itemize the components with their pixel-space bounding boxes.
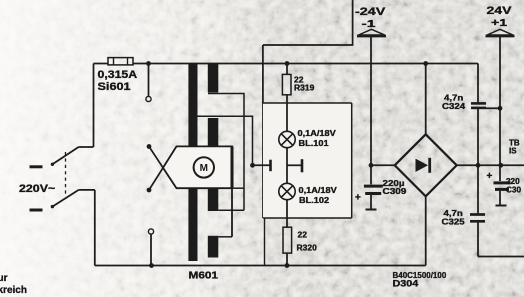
svg-text:Si601: Si601 — [98, 80, 131, 93]
svg-text:24V: 24V — [487, 4, 513, 16]
svg-text:+: + — [487, 171, 493, 182]
motor M601 crossed leads — [147, 144, 177, 192]
wire line B to plug contact — [253, 164, 271, 166]
node -24V DC junction — [369, 163, 374, 168]
wire tap2 (from left bar) to line B — [198, 116, 253, 165]
wire +24V stem — [499, 37, 501, 181]
svg-text:IS: IS — [509, 147, 517, 156]
wire AC rail corner down to C324 x=478 — [477, 64, 479, 104]
wire rail to R319 — [286, 64, 288, 75]
wire lamp box to bottom rail — [264, 218, 266, 266]
wire from top sheet down to node, x=352.6 — [263, 0, 353, 45]
motor M601 body (pentagon) — [163, 146, 232, 188]
switch S1 pole 2 — [30, 190, 95, 210]
rail symbol 24V — [486, 29, 515, 36]
wire C325 bottom to right edge — [478, 256, 524, 258]
resistor R319 — [282, 74, 291, 94]
switch mechanical link (dashed) — [65, 152, 67, 196]
plug contact bar right — [301, 159, 304, 172]
svg-text:R320: R320 — [297, 243, 318, 253]
svg-text:0,1A/18V: 0,1A/18V — [299, 185, 337, 194]
svg-text:+1: +1 — [491, 17, 507, 29]
svg-text:+: + — [355, 193, 361, 204]
wire bridge bottom to rail — [425, 196, 427, 265]
rail symbol -24V — [357, 29, 386, 36]
winding bar right section 2 — [208, 118, 219, 146]
svg-text:C325: C325 — [442, 217, 465, 226]
node R320 bottom junction — [285, 263, 290, 268]
svg-text:D304: D304 — [393, 279, 419, 289]
resistor R320 — [283, 227, 292, 253]
wire DC plus from bridge to right edge — [457, 164, 524, 166]
plug contact bar left — [269, 160, 272, 172]
svg-text:0,1A/18V: 0,1A/18V — [298, 128, 336, 137]
wire motor box right edge extension down — [231, 188, 233, 237]
switch S1 pole 1 — [30, 147, 94, 167]
svg-text:C30: C30 — [506, 185, 521, 194]
winding bar right section 1 — [208, 64, 219, 93]
node +24V DC junction — [498, 163, 503, 168]
svg-text:0,315A: 0,315A — [98, 68, 138, 80]
wire winding section3 bottom to line A — [218, 209, 244, 211]
node C325 top junction — [476, 163, 481, 168]
wire tap1 to line A — [208, 94, 244, 211]
terminal stub from fuse junction — [146, 64, 151, 102]
wire C324 down to DC plus wire — [477, 108, 479, 165]
wire switch pole2 down to bottom rail x=94.8 — [94, 190, 96, 266]
wire R320 to bottom rail — [286, 253, 288, 265]
wire switch pole1 vertical to fuse x=93.5 — [93, 64, 95, 148]
node R319 top junction — [285, 61, 290, 66]
svg-text:BL.102: BL.102 — [299, 195, 329, 205]
svg-text:BL.101: BL.101 — [299, 138, 329, 148]
node bridge AC top junction — [423, 61, 428, 66]
wire lamp-box left edge x=262.9 — [262, 45, 264, 218]
svg-text:-24V: -24V — [355, 5, 386, 17]
node fuse tap junction — [146, 61, 151, 66]
svg-text:kreich: kreich — [0, 285, 27, 296]
wire lamp junction to plug contact right — [287, 164, 302, 166]
svg-text:22: 22 — [298, 230, 308, 240]
lamp BL.101 — [279, 131, 295, 147]
svg-text:ur: ur — [0, 273, 8, 284]
node line B junction — [250, 163, 255, 168]
wire winding section4 step — [218, 236, 232, 238]
motor M601 body right edge thick — [231, 146, 234, 188]
winding bar left (primary) lower — [188, 188, 197, 261]
fuse Si601 0,315A — [108, 58, 133, 65]
winding bar left (primary) upper — [188, 64, 197, 147]
wire DC minus to bridge — [371, 164, 395, 166]
svg-text:M601: M601 — [189, 270, 218, 281]
winding bar right section 4 — [208, 236, 219, 258]
wire R319 to BL.101 — [286, 95, 288, 132]
node C324 +24V junction — [498, 106, 503, 111]
wire box bottom extension to line A — [232, 187, 244, 189]
wire -24V stem down to C309 — [370, 37, 372, 184]
bridge rectifier D304 — [395, 134, 457, 196]
capacitor C325 — [470, 165, 485, 256]
wire 220V AC rail y=63.5 — [94, 63, 109, 65]
svg-text:C324: C324 — [442, 101, 465, 110]
svg-text:C309: C309 — [383, 187, 407, 196]
terminal stub to bottom rail — [148, 229, 154, 268]
lamp BL.102 — [279, 183, 295, 199]
wire BL.101 to BL.102 — [286, 148, 288, 184]
svg-text:R319: R319 — [294, 83, 315, 93]
svg-text:220V~: 220V~ — [19, 183, 55, 195]
winding bar right section 3 — [208, 188, 219, 211]
capacitor C324 — [471, 103, 486, 108]
motor M601 rotor symbol — [194, 157, 214, 177]
wire BL.102 to R320 — [286, 200, 288, 228]
wire C324 bottom to +24V line — [486, 107, 500, 109]
capacitor C309 electrolytic — [364, 186, 383, 209]
wire AC rail to bridge top — [425, 64, 427, 135]
svg-text:-1: -1 — [362, 18, 377, 30]
capacitor C308 electrolytic — [494, 183, 511, 206]
lamp box enclosure — [263, 103, 352, 218]
svg-text:M: M — [200, 163, 208, 174]
wire bottom rail y=265.5 — [95, 265, 426, 267]
